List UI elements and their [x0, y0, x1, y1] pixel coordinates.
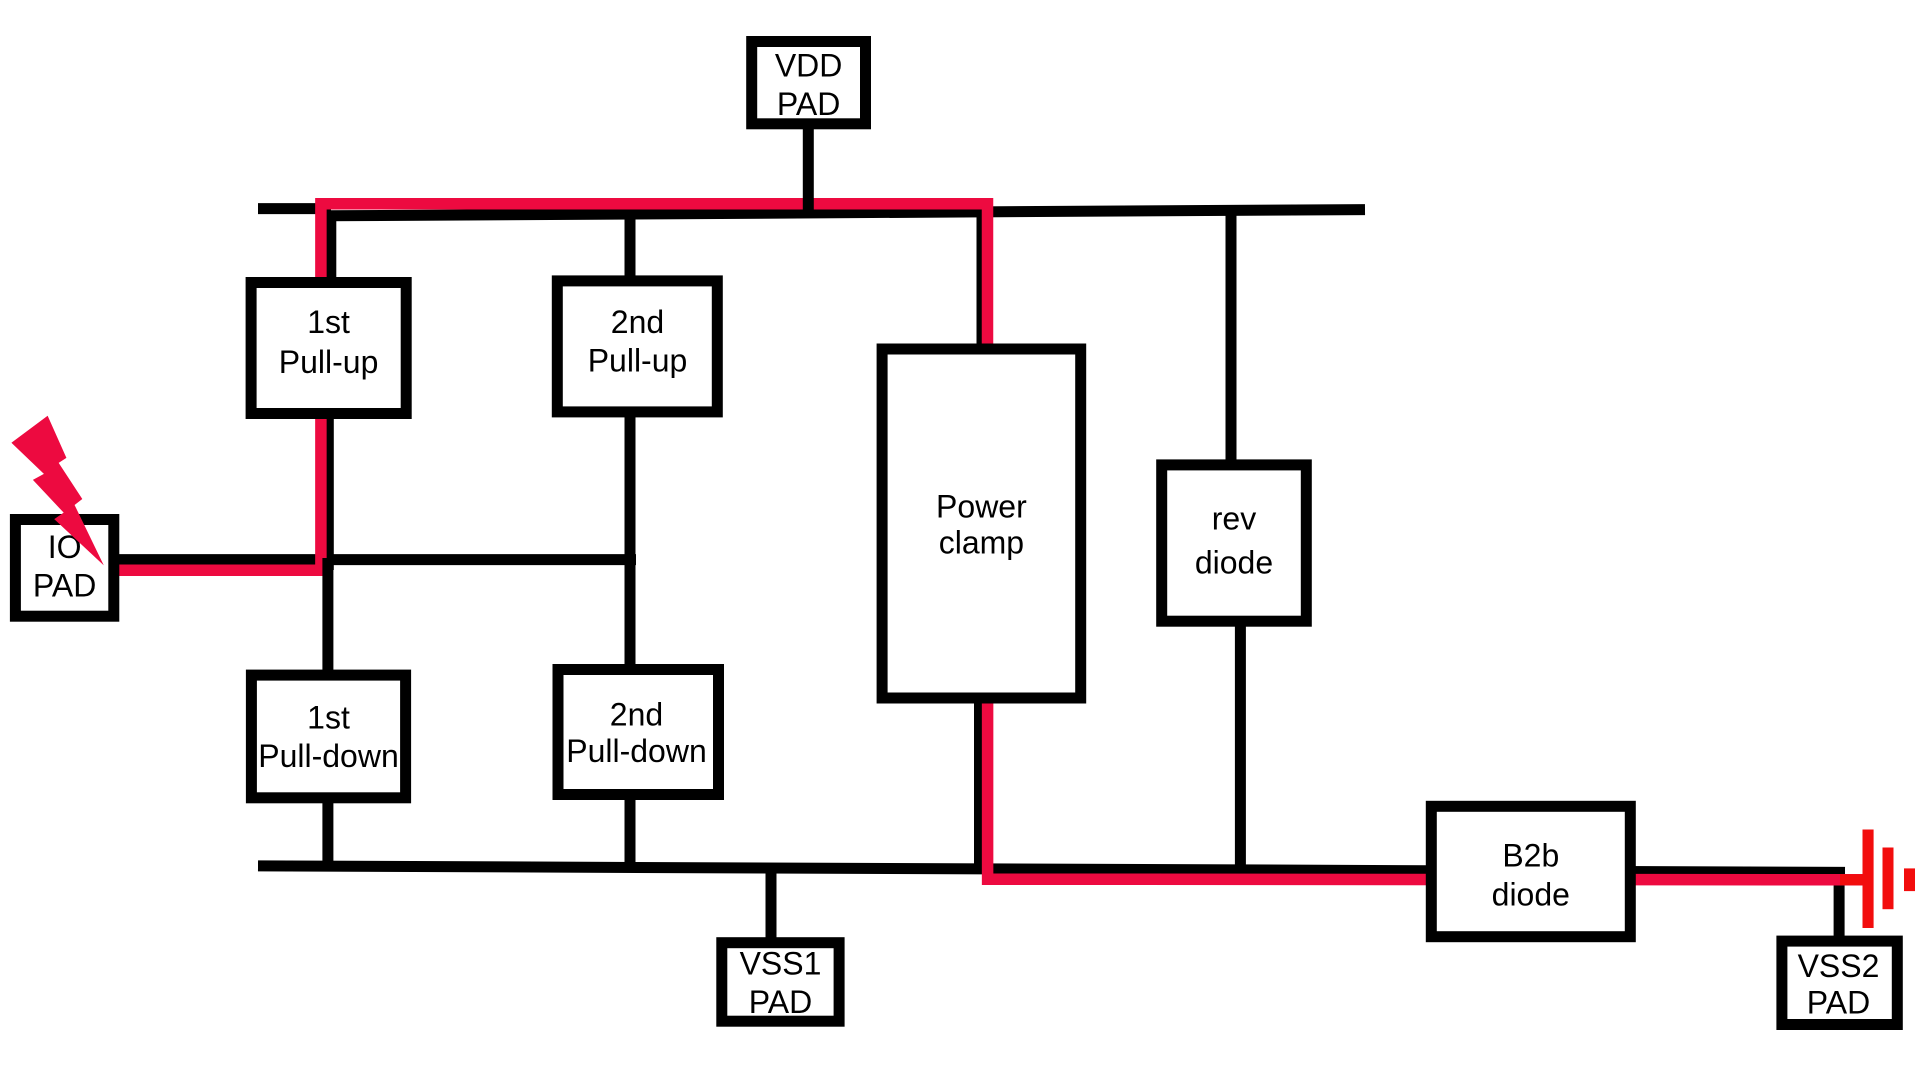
svg-text:Pull-down: Pull-down: [566, 733, 707, 769]
ESD current path (red): Power clamp down to VSS rail to VSS2 ground: [988, 697, 1863, 880]
svg-text:VSS1: VSS1: [740, 945, 822, 981]
ESD zap lightning bolt at IO PAD: [11, 416, 103, 566]
svg-text:Pull-down: Pull-down: [258, 738, 399, 774]
2nd Pull-up: [557, 281, 717, 412]
wire VDD rail: [326, 210, 1365, 216]
svg-text:PAD: PAD: [33, 567, 96, 603]
svg-text:1st: 1st: [307, 699, 350, 735]
svg-text:PAD: PAD: [1807, 985, 1870, 1021]
svg-text:2nd: 2nd: [610, 696, 663, 732]
svg-text:B2b: B2b: [1502, 838, 1559, 874]
wire IO node to 1st Pull-down to VSS rail: [322, 558, 333, 866]
wire rev diode to VSS rail: [1235, 622, 1246, 870]
wire IO PAD to 2nd stage node: [114, 554, 636, 565]
wire column 2: VDD rail / 2nd Pull-up / 2nd Pull-down / VSS rail: [625, 212, 636, 868]
ESD current path (red): IO PAD up 1st Pull-up column to VDD rail to Power clamp: [116, 204, 988, 571]
wire VDD rail left stub: [258, 203, 331, 214]
wire VSS rail to VSS1 PAD: [766, 866, 777, 942]
svg-text:Pull-up: Pull-up: [279, 344, 379, 380]
svg-text:2nd: 2nd: [611, 304, 664, 340]
1st Pull-up: [251, 283, 406, 414]
svg-text:PAD: PAD: [749, 984, 812, 1020]
wire VDD rail to Power clamp: [977, 210, 988, 350]
svg-text:diode: diode: [1195, 544, 1273, 580]
wire VSS rail: [258, 866, 1845, 873]
svg-text:clamp: clamp: [939, 525, 1024, 561]
wire 1st Pull-up to IO node: [323, 405, 334, 570]
VSS1 PAD: [722, 943, 839, 1022]
IO PAD: [15, 520, 113, 617]
svg-text:diode: diode: [1492, 877, 1570, 913]
svg-text:1st: 1st: [307, 304, 350, 340]
2nd Pull-down: [558, 670, 719, 795]
1st Pull-down: [251, 675, 405, 798]
wire VSS rail to VSS2 PAD: [1834, 869, 1845, 941]
svg-text:VSS2: VSS2: [1798, 948, 1880, 984]
wire VDD PAD to VDD rail: [803, 128, 814, 216]
wire VDD rail to rev diode: [1226, 211, 1237, 465]
svg-text:Pull-up: Pull-up: [588, 343, 688, 379]
svg-text:VDD: VDD: [775, 48, 843, 84]
svg-text:PAD: PAD: [777, 86, 840, 122]
VDD PAD: [752, 42, 866, 124]
VSS2 PAD: [1782, 941, 1897, 1024]
svg-text:rev: rev: [1212, 501, 1256, 537]
ground symbol (red) at VSS2: [1840, 830, 1915, 929]
svg-text:Power: Power: [936, 488, 1027, 524]
rev diode: [1162, 465, 1307, 621]
Power clamp: [882, 349, 1081, 698]
wire VDD rail to 1st Pull-up: [325, 212, 336, 290]
B2b diode: [1431, 806, 1630, 936]
wire Power clamp to VSS rail: [974, 697, 985, 869]
